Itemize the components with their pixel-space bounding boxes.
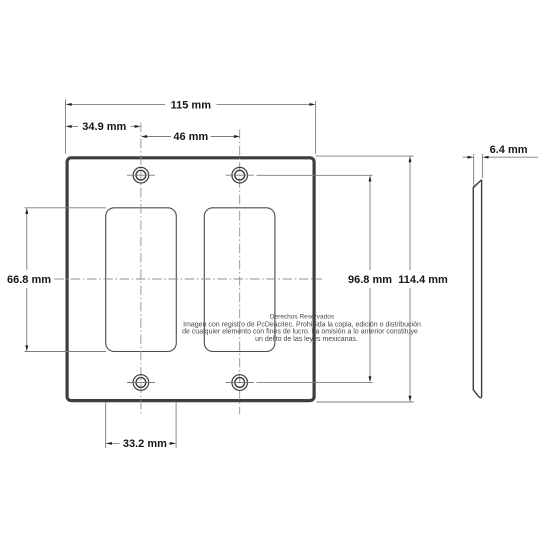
dimension 34.9 mm: [66, 121, 141, 133]
svg-text:46 mm: 46 mm: [173, 131, 208, 143]
svg-text:115 mm: 115 mm: [171, 99, 212, 111]
svg-text:96.8 mm: 96.8 mm: [348, 274, 392, 286]
opening 2 (right rocker cutout): [204, 208, 275, 352]
side view profile: [473, 180, 481, 398]
svg-text:66.8 mm: 66.8 mm: [7, 274, 51, 286]
svg-text:un delito de las leyes mexican: un delito de las leyes mexicanas.: [255, 336, 358, 343]
plate front view outline: [67, 158, 314, 401]
screw hole top-left: [127, 167, 155, 183]
dimension 6.4 mm (side view thickness): [463, 144, 538, 188]
svg-text:33.2 mm: 33.2 mm: [123, 438, 167, 450]
svg-text:114.4 mm: 114.4 mm: [398, 274, 448, 286]
svg-text:de cualquier elemento con fine: de cualquier elemento con fines de lucro…: [182, 329, 418, 336]
centerline horizontal: [54, 278, 322, 280]
dimension 46 mm: [141, 131, 240, 143]
opening 1 (left rocker cutout): [106, 208, 177, 352]
centerline vertical right: [239, 130, 241, 415]
dimension 33.2 mm: [106, 402, 176, 450]
centerline vertical left: [140, 123, 142, 415]
dimension 96.8 mm: [257, 175, 393, 382]
screw hole bottom-left: [127, 375, 155, 391]
dimension 114.4 mm: [316, 156, 448, 402]
screw hole bottom-right: [226, 375, 254, 391]
dimension 66.8 mm: [7, 208, 106, 352]
svg-text:Derechos Reservados: Derechos Reservados: [270, 314, 335, 321]
dimension 115 mm: [66, 99, 316, 154]
screw hole top-right: [226, 167, 254, 183]
svg-text:34.9 mm: 34.9 mm: [82, 121, 126, 133]
svg-text:Imagen con registro de PcDeaci: Imagen con registro de PcDeacitec. Prohi…: [183, 321, 421, 328]
svg-text:6.4 mm: 6.4 mm: [490, 144, 528, 156]
watermark notice text: [182, 314, 421, 343]
